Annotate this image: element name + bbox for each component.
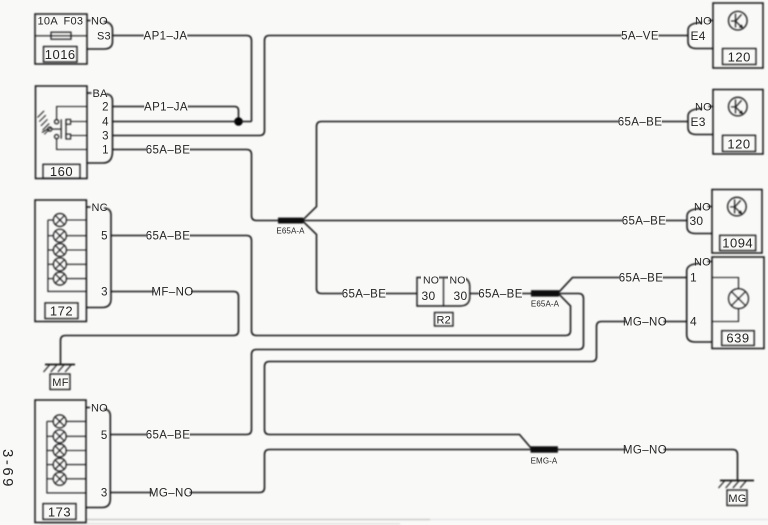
svg-text:E3: E3 bbox=[691, 115, 706, 129]
svg-text:172: 172 bbox=[50, 304, 73, 319]
svg-text:MF: MF bbox=[52, 377, 68, 389]
svg-text:MG–NO: MG–NO bbox=[623, 317, 667, 329]
svg-text:1: 1 bbox=[690, 271, 697, 285]
svg-text:NO: NO bbox=[450, 274, 466, 286]
svg-text:R2: R2 bbox=[436, 314, 450, 326]
svg-text:3: 3 bbox=[102, 131, 108, 143]
svg-text:639: 639 bbox=[726, 331, 749, 346]
svg-text:30: 30 bbox=[454, 289, 468, 303]
svg-text:65A–BE: 65A–BE bbox=[146, 231, 191, 243]
svg-text:NO: NO bbox=[695, 16, 712, 28]
svg-text:1094: 1094 bbox=[722, 236, 753, 251]
svg-text:5A–VE: 5A–VE bbox=[621, 31, 659, 43]
svg-text:4: 4 bbox=[690, 315, 697, 329]
svg-text:65A–BE: 65A–BE bbox=[622, 216, 667, 228]
svg-text:3: 3 bbox=[101, 488, 107, 500]
svg-text:2: 2 bbox=[102, 102, 108, 114]
svg-text:NC: NC bbox=[92, 202, 108, 214]
svg-text:65A–BE: 65A–BE bbox=[478, 289, 523, 301]
svg-text:1: 1 bbox=[102, 145, 108, 157]
svg-text:65A–BE: 65A–BE bbox=[146, 430, 191, 442]
svg-text:NO: NO bbox=[91, 15, 108, 27]
svg-text:E65A-A: E65A-A bbox=[531, 300, 560, 309]
svg-text:3-69: 3-69 bbox=[0, 449, 16, 489]
svg-text:10A: 10A bbox=[38, 16, 59, 28]
svg-text:S3: S3 bbox=[97, 31, 111, 43]
svg-text:5: 5 bbox=[101, 430, 107, 442]
svg-text:120: 120 bbox=[728, 50, 751, 65]
svg-text:NO: NO bbox=[695, 102, 712, 114]
svg-text:MF–NO: MF–NO bbox=[151, 287, 193, 299]
svg-text:65A–BE: 65A–BE bbox=[619, 273, 664, 285]
svg-text:MG: MG bbox=[728, 493, 746, 505]
svg-text:AP1–JA: AP1–JA bbox=[144, 31, 188, 43]
svg-text:160: 160 bbox=[50, 164, 73, 179]
svg-text:65A–BE: 65A–BE bbox=[342, 289, 387, 301]
svg-text:173: 173 bbox=[48, 504, 71, 519]
svg-text:30: 30 bbox=[690, 214, 704, 228]
svg-text:NO: NO bbox=[423, 274, 439, 286]
svg-text:MG–NO: MG–NO bbox=[623, 445, 667, 457]
svg-text:E65A-A: E65A-A bbox=[276, 227, 305, 236]
svg-text:1016: 1016 bbox=[45, 47, 76, 62]
svg-text:65A–BE: 65A–BE bbox=[146, 145, 191, 157]
svg-text:AP1–JA: AP1–JA bbox=[144, 102, 188, 114]
svg-text:NO: NO bbox=[694, 257, 711, 269]
svg-text:NO: NO bbox=[694, 202, 711, 214]
svg-text:E4: E4 bbox=[691, 29, 706, 43]
svg-text:4: 4 bbox=[102, 117, 109, 129]
svg-text:30: 30 bbox=[422, 289, 436, 303]
svg-text:BA: BA bbox=[93, 88, 109, 100]
svg-text:F03: F03 bbox=[64, 16, 84, 28]
svg-text:EMG-A: EMG-A bbox=[531, 457, 558, 466]
svg-text:NO: NO bbox=[91, 402, 108, 414]
svg-text:65A–BE: 65A–BE bbox=[618, 117, 663, 129]
svg-text:3: 3 bbox=[101, 287, 107, 299]
svg-text:120: 120 bbox=[727, 137, 750, 152]
svg-text:5: 5 bbox=[101, 230, 107, 242]
svg-text:MG–NO: MG–NO bbox=[149, 488, 193, 500]
